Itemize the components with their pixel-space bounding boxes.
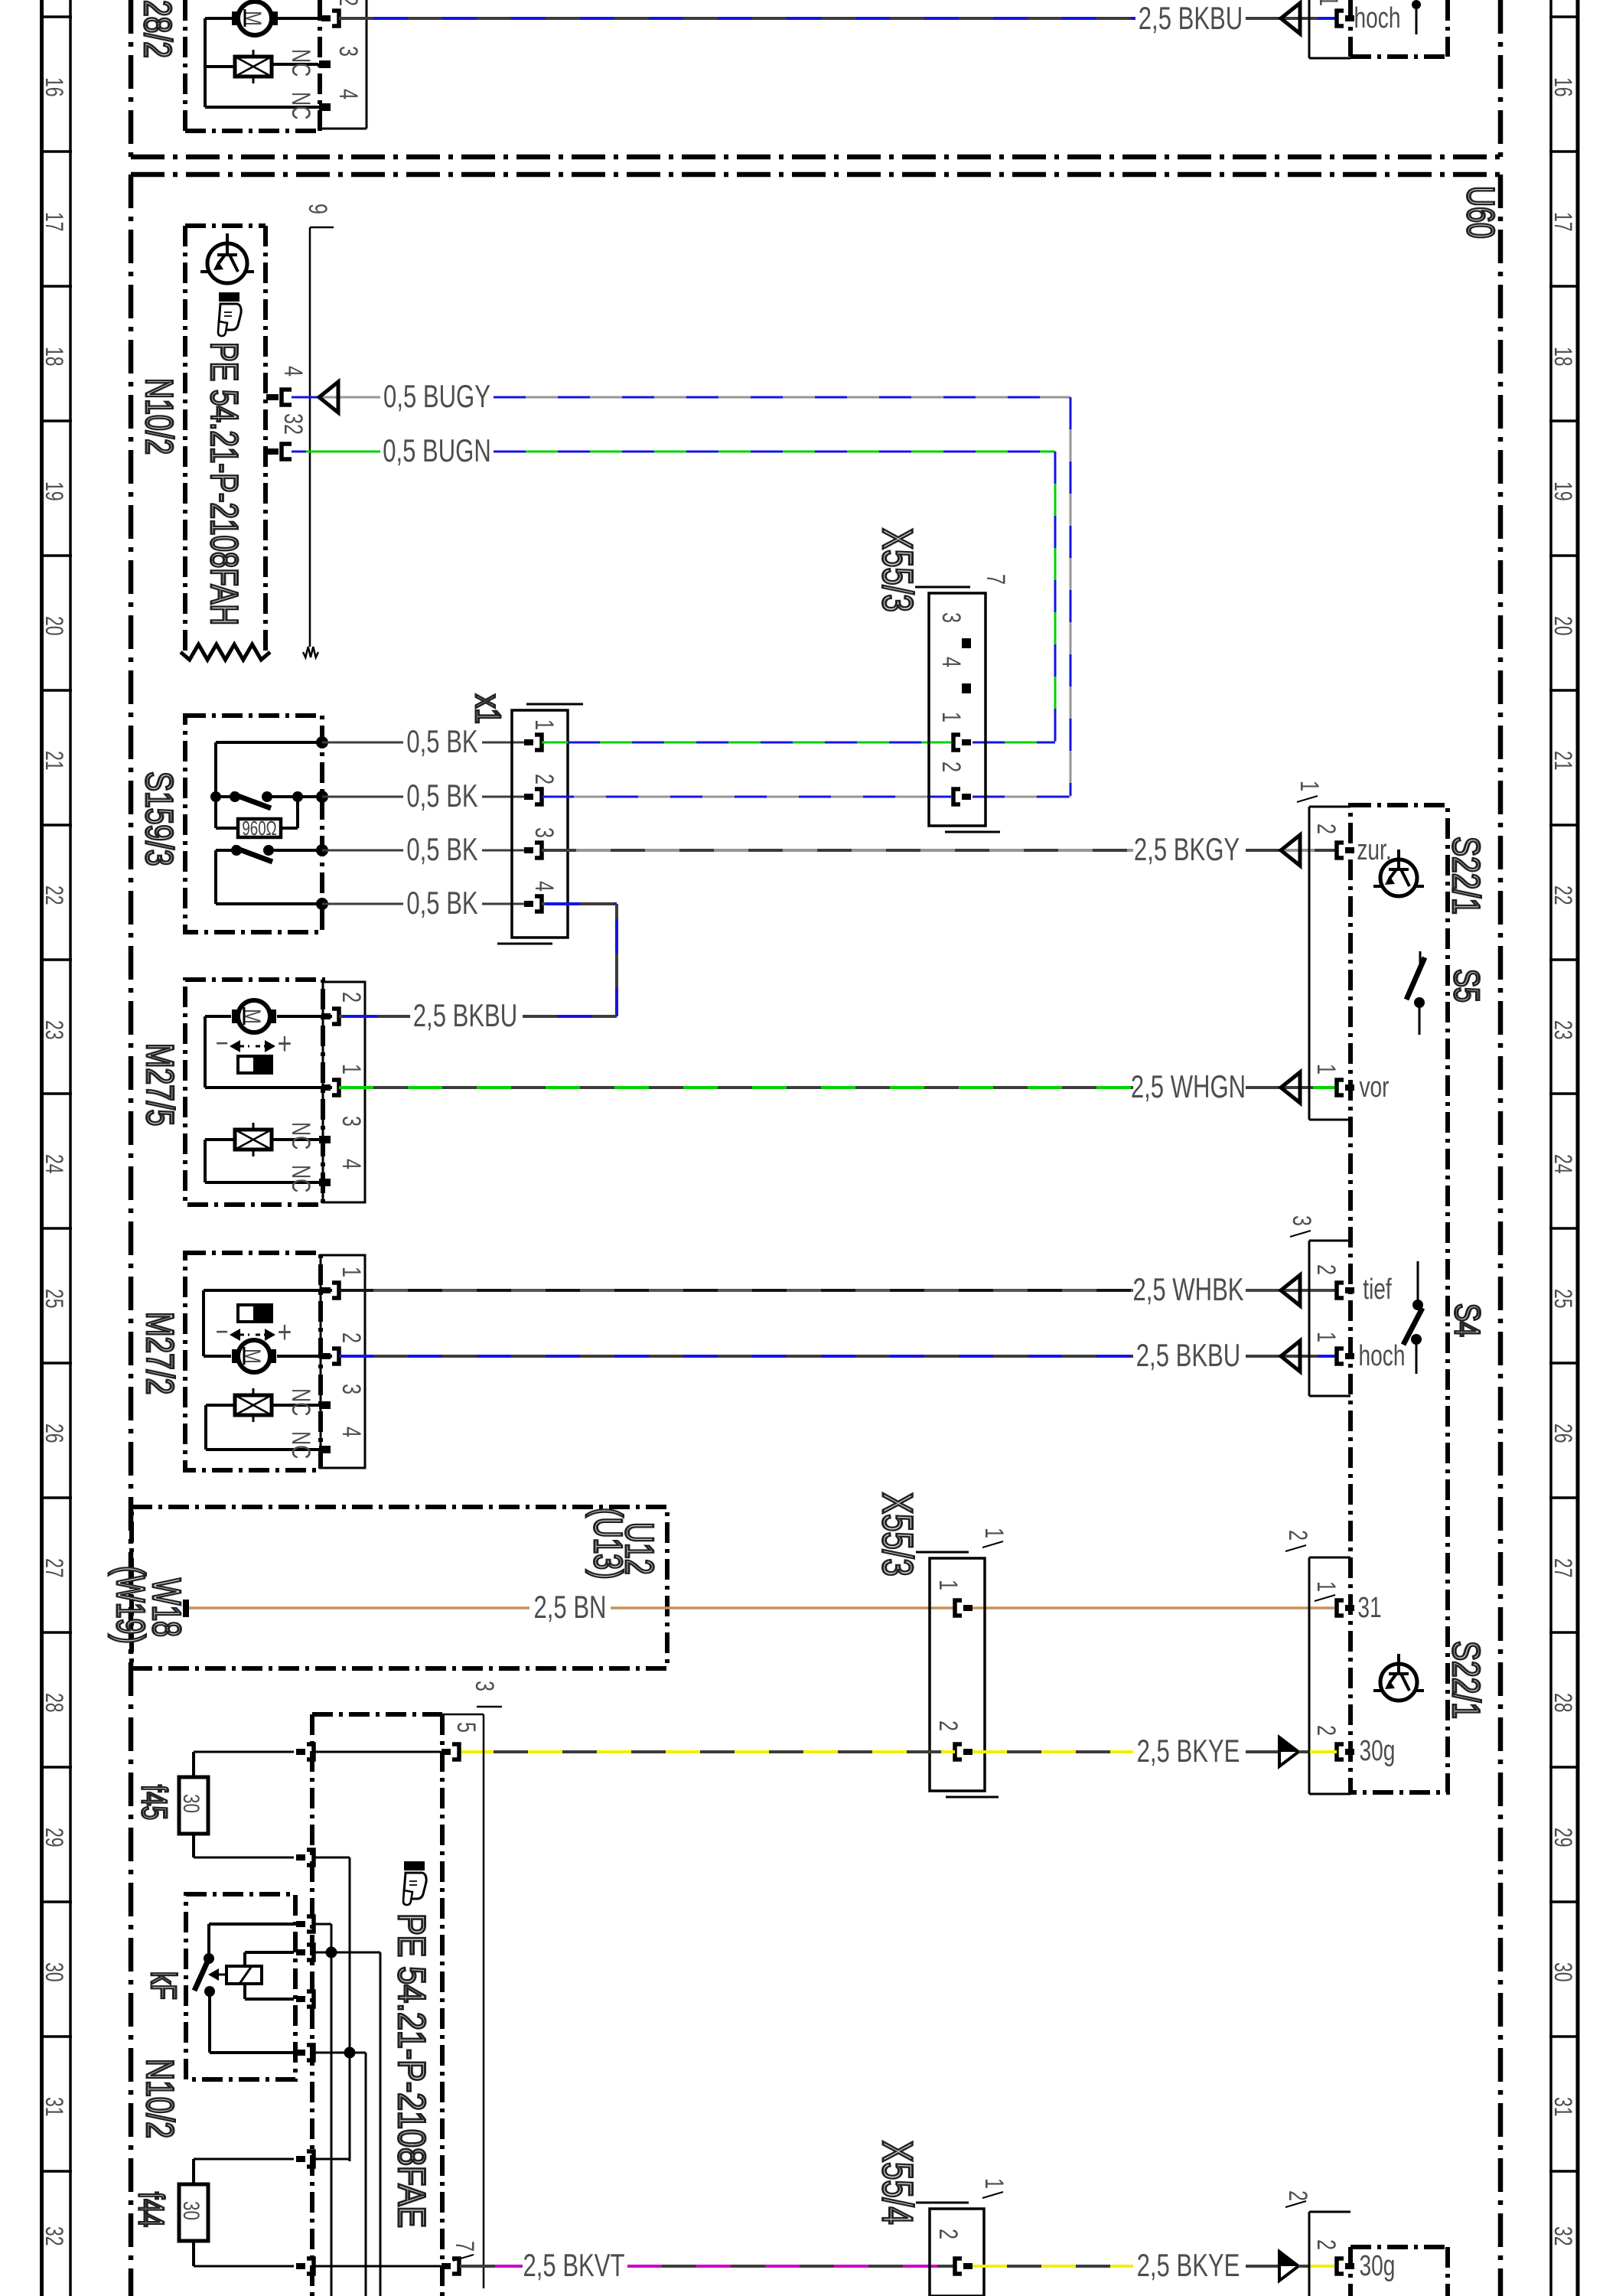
svg-text:30: 30 xyxy=(178,2201,204,2220)
kF leads xyxy=(207,1924,210,1954)
svg-text:2: 2 xyxy=(937,762,966,772)
wire 0,5 BK row3 xyxy=(322,850,403,852)
svg-text:NC: NC xyxy=(286,1431,315,1459)
svg-text:9: 9 xyxy=(303,204,332,214)
svg-text:hoch: hoch xyxy=(1359,1340,1406,1372)
pin 32 of N10/2 xyxy=(282,444,292,459)
svg-text:17: 17 xyxy=(1549,212,1577,232)
svg-text:24: 24 xyxy=(1549,1154,1577,1174)
motor M of 28/2 xyxy=(238,2,272,35)
x1 pin 4 xyxy=(535,896,542,912)
connector 9 line of N10/2 xyxy=(309,227,311,647)
svg-text:4: 4 xyxy=(337,1427,366,1437)
svg-text:28: 28 xyxy=(41,1693,68,1713)
svg-text:−: − xyxy=(216,1027,229,1058)
wire 2,5 BKYE upper xyxy=(459,1750,955,1753)
x1 pin 3 xyxy=(535,843,542,858)
svg-text:30g: 30g xyxy=(1360,1735,1396,1767)
svg-text:30: 30 xyxy=(1549,1962,1577,1982)
svg-text:19: 19 xyxy=(41,481,68,501)
svg-text:2: 2 xyxy=(337,992,366,1003)
rail pin row 2290 right xyxy=(314,1751,441,1753)
wire BUGY after x1 xyxy=(542,796,951,798)
svg-text:2,5 BKVT: 2,5 BKVT xyxy=(523,2247,625,2283)
wire 2,5 WHGN xyxy=(339,1086,1133,1089)
svg-text:1: 1 xyxy=(937,712,966,722)
wire 0,5 BK row2 xyxy=(322,796,403,798)
svg-text:2: 2 xyxy=(1311,1264,1341,1275)
pin 4 NC of 28/2 xyxy=(319,103,331,111)
S22/1 upper-cut connector outline xyxy=(1308,0,1311,58)
M27/5 pin 2 xyxy=(332,1009,339,1024)
pin 3 NC of 28/2 xyxy=(319,60,331,68)
svg-text:31: 31 xyxy=(1357,1592,1381,1624)
pin 1 31 xyxy=(1337,1600,1344,1616)
M27/2 motor symbol xyxy=(238,1340,270,1372)
rail pin f45 bottom xyxy=(307,1850,314,1865)
fuse f44 xyxy=(179,2184,208,2241)
svg-text:29: 29 xyxy=(1549,1828,1577,1848)
M27/2 valve xyxy=(235,1395,272,1415)
svg-text:2: 2 xyxy=(933,1720,963,1731)
svg-text:20: 20 xyxy=(41,616,68,636)
switch S4 xyxy=(1417,1261,1419,1301)
svg-text:2: 2 xyxy=(334,0,363,6)
svg-text:4: 4 xyxy=(334,89,363,99)
svg-text:21: 21 xyxy=(41,751,68,771)
svg-text:2,5 BKYE: 2,5 BKYE xyxy=(1137,2247,1240,2283)
S159/3 row1 stub xyxy=(216,741,322,744)
transistor symbol in N10/2 xyxy=(207,243,247,283)
svg-text:2,5 WHGN: 2,5 WHGN xyxy=(1131,1068,1246,1104)
x1 pin 1 xyxy=(535,735,542,750)
svg-text:0,5 BUGN: 0,5 BUGN xyxy=(383,432,491,468)
svg-text:hoch: hoch xyxy=(1354,2,1401,34)
pin 4 of N10/2 xyxy=(282,390,292,405)
switch stub in cut box xyxy=(1412,0,1421,9)
svg-text:0,5 BK: 0,5 BK xyxy=(406,885,478,921)
svg-text:17: 17 xyxy=(41,212,68,232)
svg-text:2: 2 xyxy=(1311,2239,1341,2250)
svg-text:26: 26 xyxy=(41,1424,68,1443)
pin 2 zur xyxy=(1337,843,1344,858)
svg-text:0,5 BK: 0,5 BK xyxy=(406,778,478,814)
left ruler xyxy=(40,0,44,2296)
svg-text:X55/3: X55/3 xyxy=(874,1492,921,1577)
svg-text:3: 3 xyxy=(337,1384,366,1394)
svg-text:tief: tief xyxy=(1363,1274,1392,1306)
svg-text:7: 7 xyxy=(981,574,1010,585)
S22/1 connector 3 outline xyxy=(1308,1241,1311,1396)
bottom S22/1 30g box xyxy=(1350,2245,1448,2249)
M27/2 pin 2 xyxy=(332,1349,339,1364)
svg-text:3: 3 xyxy=(937,612,966,623)
connector X55/3 (lower) xyxy=(930,1558,985,1791)
svg-text:1: 1 xyxy=(1311,1332,1341,1342)
svg-text:3: 3 xyxy=(334,46,363,57)
M27/5 motor symbol xyxy=(238,1000,270,1032)
svg-text:zur.: zur. xyxy=(1357,834,1391,866)
svg-text:2,5 BKBU: 2,5 BKBU xyxy=(1136,1337,1240,1373)
S22/1 cut dash-dot box xyxy=(1348,0,1353,57)
svg-text:24: 24 xyxy=(41,1154,68,1174)
M27/5 pin 1 xyxy=(332,1080,339,1095)
svg-text:3: 3 xyxy=(337,1116,366,1127)
svg-text:26: 26 xyxy=(1549,1424,1577,1443)
svg-text:kF: kF xyxy=(144,1971,182,2000)
wire BKBU from x1 pin4 xyxy=(542,902,617,905)
transistor S22/1 lower xyxy=(1380,1664,1417,1701)
wire 2,5 BKGY xyxy=(542,849,1133,852)
svg-text:1: 1 xyxy=(979,1528,1008,1538)
svg-text:S4: S4 xyxy=(1448,1303,1487,1337)
svg-text:2,5 BKBU: 2,5 BKBU xyxy=(413,997,517,1033)
svg-text:21: 21 xyxy=(1549,751,1577,771)
svg-text:16: 16 xyxy=(1549,77,1577,97)
svg-text:3: 3 xyxy=(529,827,559,838)
SAM rail borders xyxy=(310,1714,314,2296)
svg-text:1: 1 xyxy=(1311,1581,1341,1592)
wire 2,5 BN xyxy=(189,1606,529,1609)
svg-text:32: 32 xyxy=(41,2226,68,2246)
svg-text:0,5 BUGY: 0,5 BUGY xyxy=(383,378,490,414)
svg-text:1: 1 xyxy=(979,2178,1008,2189)
svg-text:NC: NC xyxy=(286,1388,315,1416)
resistor 960 Ohm xyxy=(214,797,217,828)
wire 2,5 BKBU lower xyxy=(339,1355,1133,1358)
svg-text:NC: NC xyxy=(286,92,315,119)
transistor S22/1 upper xyxy=(1380,859,1417,896)
svg-text:vor: vor xyxy=(1359,1071,1389,1104)
valve of 28/2 xyxy=(235,57,272,77)
rail pin row 2290 left xyxy=(307,1744,314,1760)
S22/1 connector 2 outline xyxy=(1308,1557,1311,1794)
M27/5 pin 4 NC xyxy=(319,1179,331,1186)
svg-text:S22/1: S22/1 xyxy=(1445,1641,1488,1719)
svg-text:2,5 BKBU: 2,5 BKBU xyxy=(1139,0,1243,36)
svg-text:0,5 BK: 0,5 BK xyxy=(406,831,478,867)
wire 2,5 BKVT xyxy=(460,2265,495,2268)
svg-text:30: 30 xyxy=(178,1794,204,1813)
svg-text:3: 3 xyxy=(470,1681,499,1691)
svg-text:1: 1 xyxy=(1314,0,1343,6)
x1 pin 2 xyxy=(535,789,542,804)
svg-text:25: 25 xyxy=(41,1289,68,1309)
svg-text:(W19): (W19) xyxy=(109,1566,154,1644)
right ruler xyxy=(1549,0,1552,2296)
switch unit S159/3 xyxy=(185,716,322,932)
M27/2 pin 1 xyxy=(332,1283,339,1298)
svg-text:29: 29 xyxy=(41,1828,68,1848)
svg-text:25: 25 xyxy=(1549,1289,1577,1309)
control unit N10/2 (top) xyxy=(185,223,266,228)
svg-text:30: 30 xyxy=(41,1962,68,1982)
svg-text:1: 1 xyxy=(933,1580,963,1590)
svg-text:f44: f44 xyxy=(132,2192,170,2227)
M27/5 valve xyxy=(235,1130,272,1150)
svg-text:M27/5: M27/5 xyxy=(138,1043,182,1126)
svg-text:(U13): (U13) xyxy=(586,1508,631,1580)
wire 2,5 WHBK xyxy=(339,1289,1133,1292)
svg-text:2: 2 xyxy=(337,1332,366,1343)
svg-text:4: 4 xyxy=(937,657,966,667)
wire 0,5 BUGN xyxy=(292,451,308,453)
hand icon rail xyxy=(404,1861,425,1870)
svg-text:2: 2 xyxy=(1311,823,1341,834)
svg-text:31: 31 xyxy=(1549,2097,1577,2117)
svg-text:22: 22 xyxy=(1549,885,1577,905)
svg-text:2: 2 xyxy=(1311,1725,1341,1736)
svg-text:18: 18 xyxy=(1549,347,1577,367)
S159/3 row4 xyxy=(214,850,217,904)
svg-text:28: 28 xyxy=(1549,1693,1577,1713)
svg-text:PE 54.21-P-2108FAE: PE 54.21-P-2108FAE xyxy=(390,1913,433,2228)
svg-text:19: 19 xyxy=(1549,481,1577,501)
pin 1 hoch xyxy=(1337,1349,1344,1364)
28/2 connector box xyxy=(366,0,368,129)
svg-text:28/2: 28/2 xyxy=(136,0,180,58)
motor M27/5 xyxy=(185,980,323,1205)
pin 1 hoch (cut box) xyxy=(1337,11,1344,26)
svg-text:2,5 BKGY: 2,5 BKGY xyxy=(1134,831,1240,867)
svg-text:1: 1 xyxy=(529,719,559,730)
svg-text:2,5 BKYE: 2,5 BKYE xyxy=(1137,1733,1240,1769)
svg-text:NC: NC xyxy=(286,1165,315,1192)
switch S5 xyxy=(1419,951,1422,969)
svg-text:S22/1: S22/1 xyxy=(1445,837,1488,915)
vertical BUGN to X55/3 pin1 xyxy=(1054,452,1057,742)
svg-text:960Ω: 960Ω xyxy=(242,817,276,840)
pin 2 30g bottom xyxy=(1337,2258,1344,2274)
svg-text:27: 27 xyxy=(1549,1558,1577,1578)
M27/2 pin 3 NC xyxy=(319,1401,331,1409)
svg-text:30g: 30g xyxy=(1360,2250,1396,2282)
svg-text:1: 1 xyxy=(1311,1064,1341,1075)
svg-text:16: 16 xyxy=(41,77,68,97)
svg-text:M27/2: M27/2 xyxy=(138,1312,182,1394)
svg-text:27: 27 xyxy=(41,1558,68,1578)
svg-text:2: 2 xyxy=(933,2229,963,2239)
svg-text:4: 4 xyxy=(337,1159,366,1169)
pin 2 tief xyxy=(1337,1283,1344,1298)
svg-text:4: 4 xyxy=(279,366,308,377)
pin 2 30g xyxy=(1337,1744,1344,1760)
svg-text:f45: f45 xyxy=(135,1785,173,1820)
svg-text:4: 4 xyxy=(529,881,559,892)
svg-text:U60: U60 xyxy=(1459,186,1501,239)
svg-text:2,5 WHBK: 2,5 WHBK xyxy=(1132,1271,1243,1307)
frame upper section borders xyxy=(129,0,134,157)
U60 box xyxy=(131,172,1500,178)
connector 3 line xyxy=(442,1714,484,1716)
S159/3 switch row2 xyxy=(216,795,235,798)
svg-text:32: 32 xyxy=(1549,2226,1577,2246)
connector x1 xyxy=(512,710,568,938)
svg-text:2,5 BN: 2,5 BN xyxy=(533,1589,606,1625)
svg-text:2: 2 xyxy=(1283,2190,1312,2201)
svg-text:X55/3: X55/3 xyxy=(874,528,921,612)
svg-text:3: 3 xyxy=(1287,1215,1316,1226)
svg-text:+: + xyxy=(278,1315,292,1349)
wire 2,5 BKBU top row xyxy=(339,17,1135,20)
svg-text:PE 54.21-P-2108FAH: PE 54.21-P-2108FAH xyxy=(203,342,245,625)
svg-text:5: 5 xyxy=(451,1722,481,1733)
svg-text:−: − xyxy=(216,1316,229,1347)
svg-text:+: + xyxy=(278,1026,292,1061)
svg-text:NC: NC xyxy=(286,49,315,77)
motor M27/2 xyxy=(185,1253,321,1470)
arrow BKBU hoch xyxy=(1281,3,1300,34)
links right of rail xyxy=(314,1923,331,1926)
svg-text:x1: x1 xyxy=(468,694,508,724)
svg-text:NC: NC xyxy=(286,1122,315,1150)
wire 2,5 BKBU mid xyxy=(339,1015,410,1018)
svg-text:N10/2: N10/2 xyxy=(138,2059,182,2138)
wire 2,5 BKYE lower xyxy=(973,2265,1133,2268)
S22/1 connector 1 outline xyxy=(1308,807,1311,1120)
connector X55/3 (upper) xyxy=(929,593,986,826)
svg-text:23: 23 xyxy=(1549,1020,1577,1040)
svg-text:31: 31 xyxy=(41,2097,68,2117)
svg-text:23: 23 xyxy=(41,1020,68,1040)
svg-text:7: 7 xyxy=(450,2241,479,2252)
hand icon N10/2 xyxy=(219,292,239,302)
wire 0,5 BUGY xyxy=(292,396,319,399)
X55/4 connector xyxy=(930,2209,984,2296)
svg-text:2: 2 xyxy=(529,774,559,784)
switch unit S22/1 (upper) xyxy=(1350,805,1448,1792)
svg-text:1: 1 xyxy=(337,1064,366,1075)
wire 0,5 BK row4 xyxy=(322,903,403,905)
svg-text:2: 2 xyxy=(1283,1530,1312,1541)
fuse f45 xyxy=(179,1777,208,1834)
M27/5 pin 3 NC xyxy=(319,1136,331,1143)
wire BUGN after x1 xyxy=(542,742,568,744)
svg-text:N10/2: N10/2 xyxy=(138,378,180,455)
relay kF xyxy=(204,1953,214,1964)
svg-text:18: 18 xyxy=(41,347,68,367)
svg-text:S159/3: S159/3 xyxy=(138,771,181,866)
svg-text:1: 1 xyxy=(337,1267,366,1277)
control unit 28/2 (cut) xyxy=(183,0,187,131)
rail pins relay rows xyxy=(307,1916,314,1932)
S159/3 switch row3 xyxy=(216,849,236,852)
wire 0,5 BK row1 xyxy=(322,742,403,744)
svg-text:22: 22 xyxy=(41,885,68,905)
svg-text:32: 32 xyxy=(279,413,308,435)
svg-text:X55/4: X55/4 xyxy=(874,2141,921,2225)
vertical BUGY to X55/3 pin2 xyxy=(1070,397,1072,796)
svg-text:S5: S5 xyxy=(1447,969,1486,1003)
svg-text:0,5 BK: 0,5 BK xyxy=(406,723,478,759)
pin 1 vor xyxy=(1337,1080,1344,1095)
N10/2 lower box xyxy=(186,1894,295,2079)
svg-text:1: 1 xyxy=(1295,781,1324,791)
ground distributor U12 (U13) xyxy=(132,1507,667,1668)
svg-text:20: 20 xyxy=(1549,616,1577,636)
M27/2 pin 4 NC xyxy=(319,1446,331,1453)
pin 2 of 28/2 xyxy=(332,11,339,26)
